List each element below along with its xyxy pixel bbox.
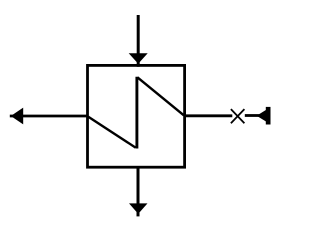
- wire: zigzag center vertical: [135, 77, 138, 149]
- wire: bottom outlet vertical line: [137, 166, 140, 216]
- wire: zigzag diagonal B (top of center line to right-middle): [137, 77, 183, 115]
- wire: right line from box to X mark: [185, 114, 232, 117]
- wire: zigzag diagonal A (left-middle to bottom of center line): [88, 117, 135, 148]
- wire: left outlet horizontal line: [10, 115, 89, 118]
- arrowhead: top inlet (pointing down into box): [129, 53, 148, 64]
- wire: right short line from X to arrowhead: [245, 114, 260, 117]
- heat exchanger box E1: [88, 65, 185, 167]
- wire: top inlet vertical line: [137, 15, 140, 67]
- node X: cross mark on right stream: [231, 109, 245, 123]
- arrowhead: left outlet (pointing left): [11, 108, 23, 125]
- arrowhead: right inlet (pointing left, with end bar): [257, 107, 271, 124]
- arrowhead: bottom outlet (pointing down): [129, 203, 148, 214]
